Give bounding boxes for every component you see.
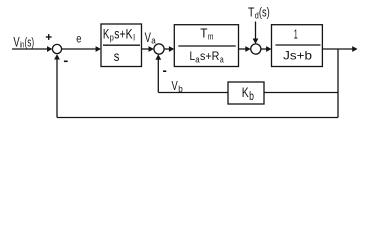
arrowhead Vb into S2 bottom: [155, 54, 161, 59]
minus sign at S1: [64, 60, 68, 62]
plus sign at S1: [46, 36, 52, 38]
wire e: S1 to block G1: [62, 48, 97, 50]
wire outer feedback bottom: [57, 117, 338, 119]
minus sign at S2: [163, 70, 166, 72]
svg-text:a: a: [220, 55, 224, 66]
arrowhead into S3: [245, 46, 250, 52]
svg-text:I: I: [133, 32, 135, 43]
value label Kb: [242, 84, 254, 103]
node branch vertical at output: [337, 49, 339, 118]
fraction bar G3: [276, 44, 321, 46]
svg-text:T: T: [248, 5, 254, 20]
block G3 1/(Js+b): [272, 25, 323, 67]
arrowhead into S1: [47, 46, 52, 52]
arrowhead feedback into S1 bottom: [54, 54, 60, 59]
svg-text:(s): (s): [25, 34, 35, 49]
wire S3 to block G3: [261, 48, 268, 50]
svg-text:m: m: [208, 31, 214, 42]
svg-text:s: s: [114, 48, 120, 64]
wire Td drop to S3: [255, 22, 257, 42]
wire G2 to summing junction S3: [239, 48, 248, 50]
svg-text:b: b: [249, 91, 254, 103]
arrowhead into G2: [169, 46, 174, 52]
wire G1 to summing junction S2: [142, 48, 151, 50]
svg-text:a: a: [151, 36, 156, 47]
svg-text:s+K: s+K: [114, 27, 132, 42]
value label G2 denominator Las+Ra: [190, 49, 225, 66]
wire outer feedback up into S1: [56, 58, 58, 118]
summing junction S1: [52, 44, 61, 53]
summing junction S3: [251, 44, 261, 54]
arrowhead Td into S3 top: [253, 39, 259, 44]
arrowhead output: [352, 46, 357, 52]
svg-text:1: 1: [294, 28, 298, 42]
value label G2 numerator Tm: [200, 26, 213, 42]
arrowhead into S2: [149, 46, 154, 52]
wire input Vin to summing junction: [12, 48, 48, 50]
label Td(s): [248, 5, 270, 22]
wire Vb up into S2: [157, 58, 159, 93]
svg-text:e: e: [76, 34, 81, 46]
svg-text:b: b: [178, 84, 183, 95]
label Vin(s): [13, 33, 34, 50]
wire output: [322, 48, 354, 50]
wire S2 to block G2: [164, 48, 171, 50]
value label G1 numerator Kps+KI: [103, 27, 135, 44]
label Va: [145, 29, 157, 47]
svg-text:(s): (s): [259, 5, 270, 20]
svg-text:T: T: [200, 26, 208, 40]
arrowhead into G3: [266, 46, 271, 52]
fraction bar G2: [178, 45, 236, 47]
wire Vb feedback left segment: [158, 92, 228, 94]
svg-text:Js+b: Js+b: [283, 49, 312, 63]
svg-text:V: V: [172, 78, 178, 93]
svg-text:p: p: [110, 32, 114, 43]
arrowhead into G1: [96, 46, 101, 52]
fraction bar G1: [103, 44, 140, 46]
label Vb: [172, 78, 183, 95]
wire Vb feedback right segment: [264, 92, 338, 94]
svg-text:K: K: [103, 27, 110, 42]
block G1 (Kps+KI)/s: [101, 24, 142, 67]
block Kb: [228, 82, 264, 104]
block G2 Tm/(Las+Ra): [174, 25, 238, 67]
svg-text:s+R: s+R: [200, 49, 220, 63]
summing junction S2: [154, 44, 164, 54]
